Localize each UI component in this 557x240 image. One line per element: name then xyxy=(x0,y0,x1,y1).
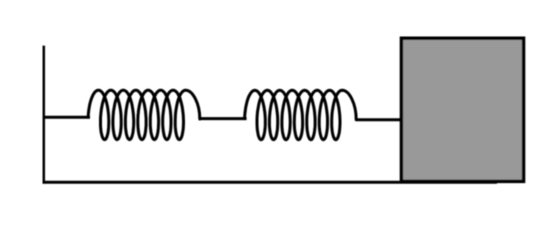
wall xyxy=(43,46,46,184)
floor xyxy=(43,181,497,184)
wire spring2 to block xyxy=(356,118,401,121)
spring S1 xyxy=(88,90,200,139)
spring S2 xyxy=(245,90,357,139)
wire spring1 to spring2 xyxy=(199,117,247,120)
mass block xyxy=(401,38,523,181)
wire wall to spring1 xyxy=(43,116,90,119)
